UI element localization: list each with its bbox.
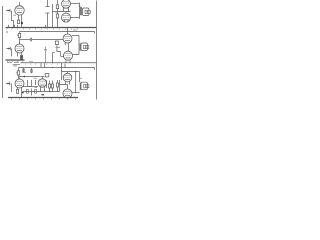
label text smudge [7, 61, 19, 63]
grid wire row3 [19, 76, 41, 78]
plate wires row2 [72, 36, 79, 56]
tube V7 [15, 78, 24, 89]
speaker S3 [80, 82, 89, 90]
rail 2b [61, 68, 95, 70]
speaker S2 [80, 43, 89, 51]
mixer components cluster [23, 80, 39, 96]
label smudge [56, 47, 61, 49]
cathode resistor R7 [16, 88, 23, 98]
phase inverter tube V8 [38, 77, 46, 92]
tick nodes between rails [41, 63, 45, 67]
wires row3 right [62, 63, 80, 93]
volume pot P3 [16, 68, 20, 80]
tube V9a [63, 72, 72, 85]
misc text smudges [6, 31, 8, 33]
plate wires to transformer [65, 3, 81, 23]
tube V4 [63, 28, 72, 43]
resistor R10 [56, 80, 58, 92]
cathode junction wire [53, 7, 71, 13]
node tick [45, 25, 47, 28]
input jack J2 [6, 47, 11, 57]
plate wire V9b [72, 92, 80, 93]
tube V3 [15, 42, 24, 53]
grid wire V9b [60, 85, 68, 90]
tube V5 [61, 51, 73, 63]
input jack J3 [6, 82, 12, 92]
B+ feed wire [52, 4, 54, 28]
grid wire with capacitor C2 [20, 38, 64, 41]
input jack J1 [6, 9, 10, 13]
left border wire [2, 6, 4, 98]
coupling capacitor C1 [46, 0, 50, 28]
mixing resistors row3 [23, 68, 25, 73]
tube V2a [62, 0, 71, 8]
tube V2b [62, 13, 71, 22]
tube V1 [15, 2, 24, 15]
wire jack down [12, 11, 14, 28]
divider resistors R2 R3 [56, 0, 58, 28]
cathode resistor R1 [17, 15, 22, 28]
V4-V5 link [65, 43, 68, 51]
inverter resistors R8 R9 [47, 80, 54, 92]
output transformer / speaker S1 [81, 7, 91, 16]
tube V9b [63, 89, 72, 98]
upper wire row3 [19, 67, 61, 69]
B+ drop wire [53, 53, 55, 63]
volume pot P2 [17, 32, 21, 45]
ground bus 2 [6, 60, 25, 62]
dropping resistor R5 [55, 41, 60, 56]
mid rails row3 [23, 91, 60, 93]
rail 2 to border [21, 62, 97, 64]
ground bus 1 [6, 25, 97, 30]
grid resistor box row3 [45, 74, 49, 77]
label smudges row3 [13, 64, 20, 66]
ground bus 3 [8, 98, 78, 100]
right border wire [96, 1, 98, 100]
lower rail [20, 32, 95, 34]
cathode resistor R4 [18, 53, 23, 60]
